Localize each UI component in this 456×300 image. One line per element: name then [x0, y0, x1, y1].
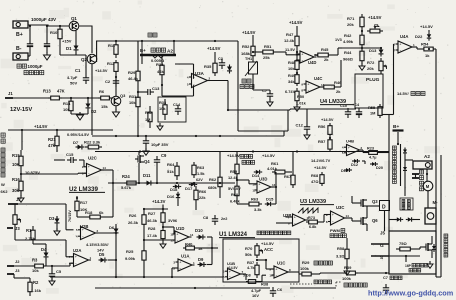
transistor Q2 — [87, 54, 97, 64]
resistor R62 680k — [219, 172, 221, 177]
resistor R1 2.74k — [32, 226, 34, 230]
label D box — [380, 201, 390, 211]
label 20x1000uF — [17, 64, 21, 68]
svg-text:R14: R14 — [63, 101, 71, 106]
svg-text:46.4k: 46.4k — [128, 76, 139, 81]
svg-text:R17: R17 — [80, 200, 88, 205]
capacitor C7 — [267, 93, 273, 95]
contact diode lower — [403, 167, 407, 170]
svg-text:6.74V: 6.74V — [285, 89, 296, 94]
svg-text:12: 12 — [170, 232, 174, 236]
svg-text:U1D: U1D — [176, 226, 184, 231]
op-amp U4C — [306, 81, 320, 93]
svg-text:U4B: U4B — [346, 139, 354, 144]
svg-text:D15: D15 — [266, 197, 274, 202]
svg-text:62V: 62V — [196, 178, 203, 182]
svg-text:17.4k: 17.4k — [147, 233, 158, 238]
svg-text:1M: 1M — [145, 117, 150, 122]
svg-text:2k: 2k — [324, 57, 329, 62]
resistor R60 6.48k — [236, 182, 238, 186]
svg-text:+14.5V: +14.5V — [227, 266, 238, 270]
svg-text:D12: D12 — [351, 163, 358, 167]
contact diode upper — [403, 150, 407, 153]
svg-text:C7: C7 — [262, 88, 268, 93]
svg-text:R59: R59 — [230, 169, 238, 174]
wire B- link — [28, 55, 30, 57]
svg-text:R16: R16 — [12, 177, 20, 182]
svg-text:R29: R29 — [128, 70, 136, 75]
svg-text:+15V: +15V — [62, 39, 72, 44]
svg-text:U2A: U2A — [73, 248, 81, 253]
label triangle wave gen — [240, 155, 244, 159]
svg-text:16P: 16P — [405, 264, 412, 268]
resistor R42 4.99k — [361, 32, 363, 35]
svg-text:C1: C1 — [75, 68, 81, 73]
svg-text:+14.5V: +14.5V — [34, 124, 48, 129]
contact symbol below A2 — [412, 173, 419, 175]
svg-text:R66: R66 — [199, 189, 207, 194]
svg-text:4.7µ: 4.7µ — [369, 156, 376, 160]
svg-text:B+: B+ — [393, 124, 399, 130]
resistor R10 — [59, 26, 61, 29]
wire R62 top — [219, 136, 221, 172]
potentiometer W — [14, 208, 16, 215]
resistor R3 10k — [32, 265, 35, 267]
svg-text:+14.3V: +14.3V — [152, 199, 166, 204]
diode D22 — [427, 34, 431, 38]
resistor R15 10K — [20, 150, 22, 156]
wire B+ to banner — [397, 143, 399, 145]
svg-text:R52: R52 — [242, 44, 250, 49]
resistor R29 46.4k — [137, 64, 139, 71]
svg-text:D5: D5 — [99, 252, 105, 257]
svg-text:+14.5V: +14.5V — [262, 153, 275, 158]
resistor R33 10k — [164, 99, 166, 105]
op-amp U4A — [398, 41, 412, 53]
diode D14 — [256, 170, 260, 174]
ground mid — [159, 123, 161, 126]
svg-text:20k: 20k — [367, 66, 374, 71]
wire left drop — [21, 130, 23, 150]
svg-text:47Ω: 47Ω — [311, 179, 318, 184]
op-amp U1C — [274, 266, 288, 278]
wire R47 node — [296, 51, 298, 53]
wire U3A out — [208, 80, 229, 82]
svg-text:R38: R38 — [261, 282, 269, 287]
motor M — [423, 181, 433, 191]
svg-text:D16: D16 — [167, 194, 175, 199]
svg-text:D17: D17 — [185, 186, 193, 191]
svg-text:14.5V/: 14.5V/ — [397, 91, 409, 96]
svg-text:168k: 168k — [241, 51, 251, 56]
node R52 TH1 — [252, 51, 254, 53]
svg-text:http://www.go-gddq.com: http://www.go-gddq.com — [368, 289, 454, 298]
svg-text:+C4: +C4 — [352, 103, 360, 107]
svg-text:J3: J3 — [15, 268, 20, 273]
svg-text:14.2V/6.7V: 14.2V/6.7V — [311, 158, 331, 163]
ground R50 — [296, 104, 298, 107]
svg-text:R73: R73 — [308, 216, 315, 220]
capacitor 10uF 35V — [143, 140, 149, 142]
zener output — [432, 246, 436, 249]
svg-text:1V3: 1V3 — [335, 38, 342, 42]
svg-text:C5: C5 — [56, 269, 62, 274]
ground R14 D2 — [71, 113, 88, 115]
svg-text:C7: C7 — [383, 276, 388, 280]
resistor R28 17.4k — [162, 228, 164, 231]
svg-text:A2: A2 — [167, 49, 173, 54]
svg-text:C10: C10 — [340, 104, 347, 108]
resistor R67 — [292, 172, 294, 175]
svg-text:C14: C14 — [173, 102, 181, 107]
sawtooth waveform — [298, 208, 318, 213]
svg-text:Q3: Q3 — [372, 199, 378, 204]
diode D3 — [55, 219, 60, 223]
diode D5 — [101, 258, 105, 263]
svg-text:10k: 10k — [32, 268, 39, 273]
resistor R16 30k — [20, 176, 22, 181]
svg-text:R55: R55 — [368, 105, 376, 110]
diode D20 — [372, 162, 375, 166]
wire TH1 bottom — [252, 74, 254, 90]
svg-text:B-: B- — [16, 46, 22, 52]
capacitor C9 — [154, 159, 160, 161]
resistor R55 1M — [379, 104, 381, 107]
op-amp U4B — [347, 145, 360, 156]
capacitor C1 4.7uF 50V — [83, 77, 89, 79]
label rotary pot vertical — [1, 148, 5, 152]
capacitor C15 — [70, 157, 72, 163]
svg-text:R71: R71 — [347, 16, 355, 21]
resistor R29 100k — [299, 273, 302, 275]
svg-text:R39: R39 — [344, 265, 352, 270]
thermistor TH1 — [249, 62, 258, 74]
wire R27 R28 node — [162, 226, 164, 228]
wire R15 junction — [20, 172, 22, 176]
svg-text:10k: 10k — [159, 106, 166, 111]
svg-text:34k: 34k — [288, 79, 295, 84]
resistor R63 1.5k — [193, 162, 195, 165]
wire shunt taps — [141, 55, 143, 64]
resistor R73 6.8k — [306, 221, 309, 223]
svg-text:+14.5V: +14.5V — [95, 68, 108, 73]
svg-text:C3: C3 — [218, 57, 223, 61]
wire top rail y41 — [96, 40, 238, 42]
wire J row — [46, 265, 70, 267]
svg-text:+14.5V: +14.5V — [314, 165, 327, 170]
label temp signal dashed — [314, 280, 318, 284]
svg-text:12.4k: 12.4k — [284, 38, 295, 43]
wire bottom buses — [50, 276, 223, 278]
diode D11 — [147, 181, 151, 186]
svg-text:A2: A2 — [424, 154, 430, 159]
svg-text:U4D: U4D — [308, 60, 316, 65]
svg-text:Q4: Q4 — [144, 159, 150, 164]
svg-text:4.15V/3.53V/: 4.15V/3.53V/ — [86, 242, 109, 247]
svg-text:R57: R57 — [318, 139, 326, 144]
resistor 75ohm — [396, 248, 400, 250]
resistor R58 3.3ohm — [346, 244, 348, 249]
resistor R35 — [214, 60, 216, 63]
svg-text:R33: R33 — [159, 100, 167, 105]
svg-text:10k: 10k — [129, 100, 136, 105]
svg-text:R1: R1 — [26, 228, 32, 233]
svg-text:75Ω: 75Ω — [399, 241, 407, 246]
wire U4A out — [412, 46, 417, 48]
wire R12 down — [115, 74, 117, 96]
svg-text:J2: J2 — [16, 197, 21, 202]
svg-text:ACC: ACC — [264, 247, 273, 252]
resistor R51 25k — [258, 51, 263, 53]
svg-text:W: W — [1, 182, 5, 187]
svg-text:C12: C12 — [296, 123, 304, 128]
diode D4 — [44, 253, 49, 257]
svg-text:R25: R25 — [126, 249, 134, 254]
diode D19 — [346, 168, 349, 172]
box U1 region — [223, 239, 299, 282]
op-amp U2B — [81, 227, 96, 240]
resistor R54 1k — [421, 48, 424, 50]
wire U3D out — [271, 186, 276, 188]
capacitor bank 1000uF x2 — [27, 43, 33, 45]
wire J1 line — [13, 97, 48, 99]
svg-text:TH1: TH1 — [245, 57, 252, 61]
wire motor to M- — [427, 191, 429, 208]
svg-text:R35: R35 — [204, 64, 212, 69]
capacitor C4 — [356, 111, 362, 113]
svg-text:D: D — [382, 205, 386, 211]
wire y152 rail — [95, 151, 389, 153]
diode D12 — [354, 159, 357, 163]
wire U1C out — [288, 271, 299, 273]
resistor R30 46k — [161, 60, 163, 65]
svg-text:1.5k: 1.5k — [197, 171, 205, 176]
svg-text:46.3k: 46.3k — [147, 218, 158, 223]
capacitor C5 — [49, 273, 55, 275]
resistor R61 4.01k — [272, 171, 275, 173]
resistor R64 51k — [176, 162, 178, 166]
svg-text:C15: C15 — [66, 152, 74, 157]
svg-text:R63: R63 — [197, 165, 205, 170]
svg-text:13: 13 — [170, 238, 174, 242]
svg-text:100k: 100k — [342, 276, 352, 281]
wire to U4D — [278, 51, 286, 53]
svg-text:R32: R32 — [145, 110, 153, 115]
resistor R48 10k — [296, 58, 298, 61]
svg-text:11.5V: 11.5V — [285, 47, 295, 52]
svg-text:R48: R48 — [288, 60, 296, 65]
svg-text:D6: D6 — [109, 225, 115, 230]
svg-text:R60: R60 — [231, 192, 238, 197]
svg-text:10: 10 — [269, 273, 273, 277]
svg-text:U1A: U1A — [181, 254, 189, 259]
wire right rail2 — [440, 155, 442, 277]
wire R39 link — [314, 273, 320, 275]
svg-text:+14.5V: +14.5V — [227, 153, 240, 158]
zener D1 — [74, 46, 79, 50]
svg-text:J1: J1 — [8, 91, 13, 96]
resistor R24 5.67k — [124, 182, 127, 184]
resistor R56 — [329, 123, 331, 126]
wire U1C inputs — [266, 268, 274, 270]
svg-text:C13: C13 — [152, 86, 160, 91]
capacitor C12 — [304, 126, 310, 128]
wire U3B inputs — [276, 222, 290, 224]
op-amp U3C — [331, 211, 345, 225]
svg-text:6.8k: 6.8k — [309, 225, 317, 229]
resistor R17 10K — [76, 196, 78, 201]
svg-text:+14.5V: +14.5V — [420, 24, 433, 29]
svg-text:R6: R6 — [99, 89, 105, 94]
svg-text:+14.5V: +14.5V — [368, 15, 382, 20]
resistor R37 4.7k — [256, 262, 258, 265]
resistor R31 10k — [137, 92, 139, 97]
svg-text:4.01k: 4.01k — [267, 166, 278, 171]
diode D2 — [86, 104, 91, 108]
svg-text:R40: R40 — [185, 242, 193, 247]
svg-text:4.7µF: 4.7µF — [67, 75, 78, 80]
resistor R2 1.16k — [29, 278, 31, 282]
diode D15 — [267, 202, 271, 206]
svg-text:U2B: U2B — [80, 224, 88, 229]
wire U1D out right — [212, 247, 218, 249]
wire U2A minus — [65, 240, 67, 257]
svg-text:R12: R12 — [107, 61, 115, 66]
svg-text:22k: 22k — [199, 195, 206, 200]
resistor R12 — [115, 60, 117, 63]
mosfet output — [427, 243, 429, 251]
capacitor C6 4.7uF 16V — [270, 290, 276, 292]
svg-text:+14.5V: +14.5V — [242, 30, 256, 35]
svg-text:7V/15V: 7V/15V — [68, 210, 72, 222]
capacitor C14 — [175, 108, 181, 110]
svg-text:13: 13 — [272, 183, 276, 187]
wire Q4 top — [138, 152, 140, 156]
svg-text:R44: R44 — [344, 50, 352, 55]
svg-text:R62: R62 — [209, 177, 217, 182]
resistor R21 47k — [56, 130, 58, 136]
label temp sensor — [242, 79, 246, 83]
svg-text:R54: R54 — [421, 42, 429, 47]
op-amp U4D — [300, 51, 314, 63]
svg-text:3.3Ω: 3.3Ω — [336, 254, 345, 259]
diode D17 — [191, 182, 195, 186]
transistor Q3 — [111, 96, 121, 106]
resistor R36 — [246, 281, 248, 283]
svg-text:M: M — [426, 184, 430, 189]
svg-text:10k: 10k — [288, 66, 295, 71]
wire Q1 collector — [79, 26, 92, 53]
node y209 — [144, 208, 168, 210]
wire U2C out — [102, 169, 114, 171]
wire R45 R46 join — [332, 54, 338, 56]
svg-text:D7: D7 — [73, 140, 79, 145]
diode D18 — [175, 184, 179, 188]
ground R28 — [162, 241, 164, 244]
resistor R6 15k — [98, 97, 101, 99]
svg-text:6.48k: 6.48k — [230, 199, 241, 204]
svg-text:50k: 50k — [245, 252, 252, 257]
resistor R27 46.3k — [162, 209, 164, 213]
op-amp U1D — [175, 231, 189, 243]
ground output module — [429, 261, 431, 264]
svg-text:R28: R28 — [148, 226, 156, 231]
resistor R46 2k — [320, 86, 324, 88]
wire J2 to U2B — [18, 203, 66, 205]
resistor R57 — [329, 137, 331, 140]
resistor R47 12.4k — [296, 32, 298, 36]
resistor R14 10k — [70, 98, 72, 101]
diode D6 — [114, 229, 119, 233]
resistor R44 966ohm — [361, 48, 363, 51]
wire R26 R25 — [143, 230, 145, 248]
resistor R63b 3.3k — [246, 203, 249, 205]
svg-text:U1C: U1C — [277, 261, 285, 266]
resistor R32 1M — [149, 106, 151, 112]
wire rail x392 — [393, 44, 395, 115]
svg-text:+14.5V: +14.5V — [261, 241, 274, 246]
svg-text:Q6: Q6 — [372, 218, 378, 223]
svg-text:B+: B+ — [16, 32, 23, 38]
svg-text:U3D: U3D — [259, 177, 267, 182]
capacitor C2 — [113, 80, 119, 82]
label waijie left — [1, 133, 5, 137]
wire B+ rail — [28, 25, 69, 26]
svg-text:10k: 10k — [63, 107, 70, 112]
svg-text:6k: 6k — [99, 210, 104, 215]
svg-text:D9: D9 — [198, 257, 204, 262]
svg-text:10µF 35V: 10µF 35V — [151, 142, 169, 147]
resistor R45 2k — [314, 54, 318, 56]
module box output — [389, 231, 436, 274]
wire Q3 emitter — [115, 106, 117, 110]
shunt bar 0.005ohm — [140, 54, 176, 56]
wire Q3 Q6 chain — [366, 200, 368, 206]
svg-text:C8: C8 — [203, 215, 209, 220]
svg-text:D22: D22 — [415, 34, 423, 39]
wire rail x436 — [435, 49, 437, 277]
svg-text:D19: D19 — [341, 169, 348, 173]
svg-text:R68: R68 — [311, 173, 319, 178]
svg-text:+14.5V: +14.5V — [289, 20, 303, 25]
node y48 — [342, 47, 381, 49]
svg-text:R24: R24 — [122, 174, 130, 179]
resistor R40 1k — [183, 247, 186, 249]
svg-text:15k: 15k — [101, 104, 108, 109]
box PLUG connector — [355, 74, 383, 108]
wire S row — [389, 255, 420, 257]
svg-text:1k: 1k — [425, 53, 430, 58]
wire D1 R10 bottom — [75, 53, 77, 56]
wire Q2 down — [91, 64, 93, 135]
svg-text:Q1: Q1 — [71, 16, 77, 21]
wire diode cluster — [362, 160, 368, 162]
svg-text:C9: C9 — [161, 153, 167, 158]
svg-text:R72: R72 — [367, 60, 375, 65]
label caps parallel — [24, 71, 28, 75]
wire y183 bus — [108, 182, 235, 184]
svg-text:1.01k: 1.01k — [296, 101, 307, 106]
potentiometer CL — [367, 30, 370, 32]
wire A2 feed — [405, 164, 413, 166]
svg-text:16V: 16V — [252, 293, 259, 298]
svg-text:11: 11 — [252, 188, 256, 192]
op-amp U3D — [257, 181, 271, 193]
svg-text:50V: 50V — [70, 81, 77, 86]
svg-text:14: 14 — [346, 214, 350, 218]
svg-text:D3: D3 — [49, 216, 55, 221]
svg-text:+14.5V: +14.5V — [321, 117, 334, 122]
